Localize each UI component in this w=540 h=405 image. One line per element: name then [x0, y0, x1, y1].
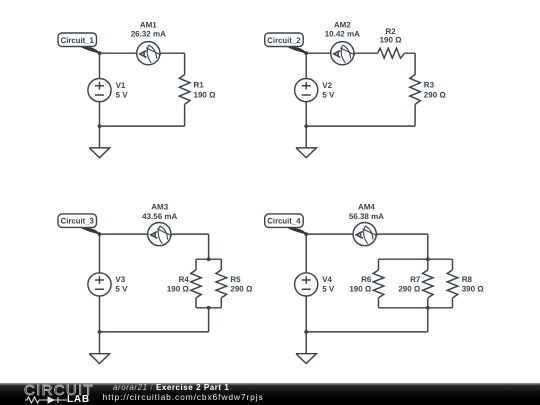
svg-text:V4: V4: [322, 275, 332, 284]
svg-text:R6: R6: [361, 275, 372, 284]
svg-text:10.42 mA: 10.42 mA: [325, 30, 360, 39]
svg-text:AM2: AM2: [334, 20, 351, 29]
svg-text:V3: V3: [115, 275, 125, 284]
svg-text:5 V: 5 V: [322, 91, 335, 100]
svg-text:190 Ω: 190 Ω: [194, 91, 217, 100]
svg-text:390 Ω: 390 Ω: [462, 285, 485, 294]
svg-text:290 Ω: 290 Ω: [398, 285, 421, 294]
svg-text:Circuit_2: Circuit_2: [267, 36, 301, 45]
svg-text:190 Ω: 190 Ω: [167, 285, 190, 294]
svg-text:190 Ω: 190 Ω: [380, 36, 403, 45]
svg-text:R4: R4: [179, 275, 190, 284]
svg-text:AM1: AM1: [140, 20, 157, 29]
svg-text:R8: R8: [462, 275, 473, 284]
svg-text:R5: R5: [230, 275, 241, 284]
svg-text:R3: R3: [424, 81, 435, 90]
svg-text:Circuit_3: Circuit_3: [61, 217, 95, 226]
svg-text:R7: R7: [410, 275, 421, 284]
svg-text:26.32 mA: 26.32 mA: [131, 30, 166, 39]
svg-text:190 Ω: 190 Ω: [349, 285, 372, 294]
svg-text:R1: R1: [194, 81, 205, 90]
svg-text:Circuit_1: Circuit_1: [61, 36, 95, 45]
svg-text:56.38 mA: 56.38 mA: [349, 212, 384, 221]
svg-text:AM4: AM4: [358, 203, 375, 212]
svg-text:AM3: AM3: [151, 203, 168, 212]
svg-text:R2: R2: [385, 27, 396, 36]
svg-text:Circuit_4: Circuit_4: [267, 217, 301, 226]
svg-text:V2: V2: [322, 81, 332, 90]
svg-text:43.56 mA: 43.56 mA: [142, 212, 177, 221]
svg-text:290 Ω: 290 Ω: [230, 285, 253, 294]
svg-text:5 V: 5 V: [322, 285, 335, 294]
svg-text:290 Ω: 290 Ω: [424, 91, 447, 100]
svg-text:V1: V1: [116, 81, 126, 90]
svg-text:5 V: 5 V: [116, 91, 129, 100]
svg-text:5 V: 5 V: [115, 285, 128, 294]
